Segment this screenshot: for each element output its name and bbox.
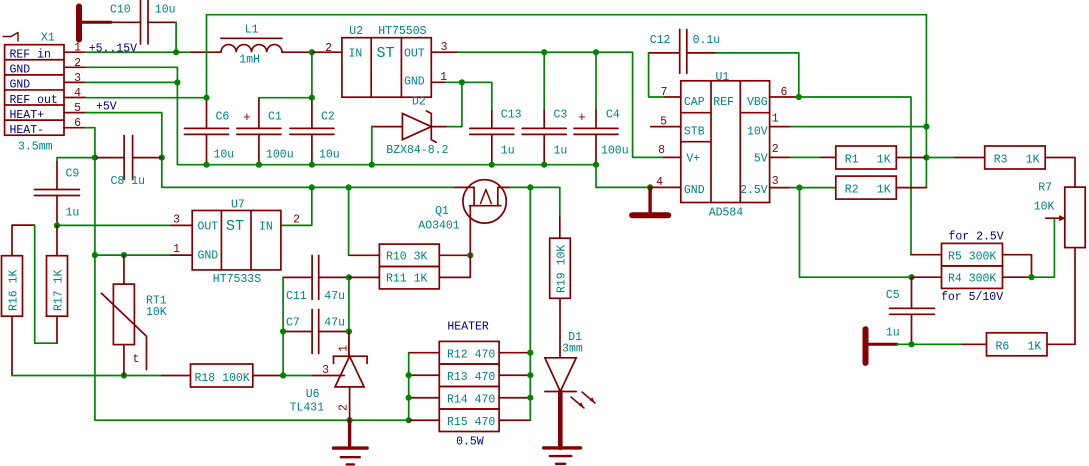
heater right vertical <box>529 187 531 420</box>
svg-text:6: 6 <box>781 86 788 99</box>
junction U2 GND <box>459 79 465 85</box>
svg-text:X1: X1 <box>41 32 55 45</box>
heater left vertical <box>408 353 410 421</box>
svg-text:OUT: OUT <box>198 221 219 234</box>
junction C1 bottom <box>256 162 262 168</box>
svg-text:7: 7 <box>661 86 668 99</box>
svg-text:3mm: 3mm <box>562 343 583 356</box>
wire HEAT- down <box>94 158 96 256</box>
wire C4 top to U1 V+ <box>596 52 664 157</box>
R4 right pin <box>1003 276 1032 278</box>
resistor R4 300K <box>942 266 1003 289</box>
svg-text:U7: U7 <box>231 199 245 212</box>
svg-text:+5V: +5V <box>96 101 117 114</box>
R4 left pin <box>912 276 942 278</box>
svg-text:HT7550S: HT7550S <box>378 25 426 38</box>
svg-text:4: 4 <box>656 176 663 189</box>
junction C2 bottom <box>309 162 315 168</box>
svg-text:R7: R7 <box>1038 182 1052 195</box>
U1 pin 4 stub <box>650 186 681 188</box>
wire X1 pin2 down <box>86 67 178 82</box>
X1 pin 4 stub <box>64 97 86 99</box>
U1 pin 8 stub <box>664 156 681 158</box>
X1 pin 3 stub <box>64 81 86 83</box>
resistor R13 470 <box>439 364 499 387</box>
wire U2 OUT to C3 C4 <box>459 51 545 53</box>
svg-text:R16 1K: R16 1K <box>8 269 21 311</box>
regulator U2 HT7550S <box>312 51 342 53</box>
wire heater rail to R10 branch <box>312 186 349 188</box>
svg-text:47u: 47u <box>324 290 345 303</box>
svg-text:C8 1u: C8 1u <box>111 175 146 188</box>
wire to C9 top <box>57 158 95 162</box>
power flag bar at C10 left <box>76 7 82 40</box>
svg-text:10u: 10u <box>155 4 176 17</box>
R10 right pin <box>439 254 470 256</box>
wire gnd to C5 <box>897 343 912 345</box>
svg-text:R18 100K: R18 100K <box>195 372 250 385</box>
svg-text:GND: GND <box>198 250 219 263</box>
junction U7 IN drop <box>309 184 315 190</box>
svg-text:+5..15V: +5..15V <box>89 43 137 56</box>
wire rail to Q1 <box>349 186 455 188</box>
svg-text:5: 5 <box>660 116 667 129</box>
wire U2 GND net <box>446 81 462 83</box>
wire U7 IN drop <box>281 187 312 225</box>
ground symbol D1 <box>558 392 563 448</box>
svg-text:AD584: AD584 <box>709 207 744 220</box>
svg-text:+: + <box>243 110 251 125</box>
svg-text:VBG: VBG <box>747 96 768 109</box>
resistor R15 470 <box>439 409 499 432</box>
svg-text:C9: C9 <box>66 168 80 181</box>
svg-text:2: 2 <box>293 214 300 227</box>
svg-text:R19 10K: R19 10K <box>556 245 569 293</box>
svg-text:IN: IN <box>349 48 363 61</box>
wire C11 C7 left column <box>282 277 284 375</box>
svg-text:6: 6 <box>74 117 81 130</box>
wire pin3 2.5V net <box>790 187 800 189</box>
svg-text:R12 470: R12 470 <box>447 348 495 361</box>
heater left pins <box>409 352 440 354</box>
svg-text:1mH: 1mH <box>239 54 260 67</box>
wire VBG to R5 <box>799 97 911 255</box>
R17 bottom pin <box>56 316 58 343</box>
U1 pin 5 stub <box>651 126 681 128</box>
wire to R2 <box>800 187 836 189</box>
junction R11 left <box>346 274 352 280</box>
wire gnd rail under caps <box>177 164 596 166</box>
svg-text:100u: 100u <box>601 145 629 158</box>
R17 top pin <box>56 225 58 255</box>
svg-text:HEAT+: HEAT+ <box>10 109 45 122</box>
svg-text:10V: 10V <box>747 125 768 138</box>
junction R4 C5 <box>908 274 914 280</box>
resistor R12 470 <box>439 341 499 364</box>
LED D1 3mm <box>559 298 561 358</box>
svg-text:1u: 1u <box>66 207 80 220</box>
connector X1 <box>5 45 64 136</box>
svg-text:1K: 1K <box>1028 340 1042 353</box>
heater right pins <box>499 352 530 354</box>
svg-text:10K: 10K <box>146 306 167 319</box>
svg-text:for 2.5V: for 2.5V <box>949 231 1004 244</box>
R11 right bend up <box>439 255 470 277</box>
junction Q1 gate <box>467 252 473 258</box>
ground symbol at U1 pin 4 <box>648 187 651 212</box>
resistor R1 1K <box>836 146 897 169</box>
X1 pin 2 stub <box>64 66 86 68</box>
svg-text:t: t <box>133 353 140 366</box>
svg-text:C1: C1 <box>268 111 282 124</box>
R1 left pin <box>821 156 836 158</box>
junction C3 bottom <box>541 162 547 168</box>
junction C13 bottom <box>489 162 495 168</box>
svg-text:1u: 1u <box>554 145 568 158</box>
U1 pin 1 stub <box>770 126 790 128</box>
wire to R19 <box>530 187 560 217</box>
wire HEAT- down to bottom rail <box>95 255 350 420</box>
zener diode D2 BZX84-8.2 <box>372 126 403 128</box>
resistor R17 1K <box>47 256 68 317</box>
junction VBG <box>796 94 802 100</box>
junction U1 GND <box>647 184 653 190</box>
svg-text:R17 1K: R17 1K <box>53 269 66 311</box>
svg-text:2: 2 <box>325 42 332 55</box>
wire down to D2 cathode <box>446 82 462 126</box>
svg-text:V+: V+ <box>686 153 700 166</box>
wire pin1 to vertical <box>790 126 926 128</box>
wire Q1 drain to heater <box>510 186 530 188</box>
junction R13 left <box>406 372 412 378</box>
svg-text:8: 8 <box>658 144 665 157</box>
junction C6 bottom <box>203 162 209 168</box>
junction C7 column bottom <box>280 372 286 378</box>
junction RT1 top <box>121 252 127 258</box>
svg-text:3: 3 <box>173 214 180 227</box>
svg-text:OUT: OUT <box>404 48 425 61</box>
svg-text:GND: GND <box>684 184 705 197</box>
resistor R2 1K <box>836 176 897 199</box>
svg-text:10u: 10u <box>319 149 340 162</box>
shunt regulator U6 TL431 <box>348 332 350 357</box>
D1 led arrows <box>571 397 584 408</box>
svg-text:U6: U6 <box>306 388 320 401</box>
junction R10 branch <box>346 184 352 190</box>
capacitor C7 <box>283 331 312 333</box>
resistor R10 3K <box>379 244 439 266</box>
junction C4 bottom <box>593 162 599 168</box>
junction C2 top <box>309 95 315 101</box>
svg-text:Q1: Q1 <box>435 205 449 218</box>
wire +5V down to heater rail <box>162 158 312 188</box>
wire R10 left up to rail <box>349 254 380 256</box>
svg-text:GND: GND <box>404 76 425 89</box>
junction C7 left <box>280 328 286 334</box>
wire top rail 10V <box>207 15 927 127</box>
svg-text:HEAT-: HEAT- <box>10 124 45 137</box>
R5 right bend down <box>1003 255 1032 278</box>
vertical 10V net <box>925 127 927 158</box>
junction RT1 bottom <box>121 372 127 378</box>
svg-text:+: + <box>578 110 586 125</box>
svg-text:3: 3 <box>441 41 448 54</box>
X1 pin 1 stub <box>64 51 86 53</box>
junction U7 GND net left <box>92 252 98 258</box>
R3 right to R7 top <box>1045 158 1075 188</box>
capacitor C12 <box>649 52 680 54</box>
svg-text:R5 300K: R5 300K <box>948 251 996 264</box>
svg-text:R11 1K: R11 1K <box>386 273 428 286</box>
svg-text:R3: R3 <box>994 154 1008 167</box>
svg-text:for 5/10V: for 5/10V <box>941 291 1003 304</box>
svg-text:C3: C3 <box>554 109 568 122</box>
svg-text:3: 3 <box>322 364 329 377</box>
svg-text:STB: STB <box>684 125 705 138</box>
svg-text:ST: ST <box>226 218 244 235</box>
capacitor C1 <box>258 98 260 129</box>
svg-text:R15 470: R15 470 <box>447 416 495 429</box>
svg-text:C2: C2 <box>321 111 335 124</box>
svg-text:5V: 5V <box>754 153 768 166</box>
wire C12 left to U1 CAP <box>649 53 665 97</box>
svg-text:3.5mm: 3.5mm <box>18 141 53 154</box>
wire R18 to U6 ref <box>253 375 283 377</box>
svg-text:REF in: REF in <box>10 49 51 62</box>
svg-text:1: 1 <box>173 243 180 256</box>
potentiometer R7 10K <box>1065 187 1085 248</box>
svg-text:3: 3 <box>74 72 81 85</box>
junction C9 R17 U7out <box>54 222 60 228</box>
junction C8 left <box>92 155 98 161</box>
junction 2.5V <box>796 185 802 191</box>
svg-text:1K: 1K <box>877 184 891 197</box>
wire C1 top to C2 top <box>259 97 312 99</box>
resistor R18 100K <box>162 375 191 377</box>
svg-text:C4: C4 <box>606 109 620 122</box>
wire X1 pin1 to L1 <box>86 51 192 53</box>
junction row3 <box>174 79 180 85</box>
capacitor C10 <box>111 21 141 23</box>
U1 pin 7 stub <box>665 96 681 98</box>
svg-text:C11: C11 <box>286 290 307 303</box>
R16 bottom pin <box>11 316 13 375</box>
svg-text:C12: C12 <box>650 34 671 47</box>
junction R14 left <box>406 395 412 401</box>
svg-text:R10 3K: R10 3K <box>386 251 428 264</box>
U1 pin 3 stub <box>770 187 790 189</box>
svg-text:GND: GND <box>10 79 31 92</box>
regulator U7 HT7533S <box>192 211 281 270</box>
svg-text:C7: C7 <box>286 317 300 330</box>
svg-text:1u: 1u <box>501 145 515 158</box>
junction U6 anode <box>347 417 353 423</box>
U2 pin 1 GND stub <box>431 81 446 83</box>
svg-text:ST: ST <box>377 45 395 62</box>
svg-text:1: 1 <box>772 113 779 126</box>
svg-text:HT7533S: HT7533S <box>213 273 261 286</box>
wire R16 bottom to R18 <box>12 375 162 377</box>
svg-text:1: 1 <box>338 345 351 352</box>
capacitor C6 <box>206 98 208 129</box>
svg-text:5: 5 <box>74 102 81 115</box>
junction row4 C6 <box>203 95 209 101</box>
svg-text:1K: 1K <box>1026 154 1040 167</box>
svg-text:47u: 47u <box>324 317 345 330</box>
svg-text:3: 3 <box>772 175 779 188</box>
svg-text:4: 4 <box>74 87 81 100</box>
capacitor C8 <box>95 157 124 159</box>
svg-text:GND: GND <box>10 64 31 77</box>
resistor R3 1K <box>956 157 985 159</box>
U1 pin 2 stub <box>770 156 790 158</box>
svg-text:1: 1 <box>74 42 81 55</box>
U6 pin 3 stub <box>313 375 340 377</box>
svg-text:C13: C13 <box>501 109 522 122</box>
svg-text:BZX84-8.2: BZX84-8.2 <box>386 144 448 157</box>
connector X1 open-wire mark <box>3 33 18 42</box>
svg-text:100u: 100u <box>266 149 294 162</box>
svg-text:R1: R1 <box>845 154 859 167</box>
svg-text:REF out: REF out <box>10 94 58 107</box>
wire C10 right to +5..15V rail <box>175 22 177 52</box>
R6 right to R7 bottom <box>1047 343 1075 345</box>
svg-text:2: 2 <box>772 143 779 156</box>
svg-text:10K: 10K <box>1034 201 1055 214</box>
svg-text:2: 2 <box>338 404 351 411</box>
wire X1 pin6 HEAT- <box>86 128 95 158</box>
svg-text:AO3401: AO3401 <box>418 219 460 232</box>
junction heater left bottom <box>406 417 412 423</box>
svg-text:R2: R2 <box>845 184 859 197</box>
junction R1 R3 row <box>923 154 929 160</box>
junction R14 right <box>527 395 533 401</box>
R16 top bend to R17 bottom <box>12 225 35 256</box>
junction R13 right <box>527 372 533 378</box>
junction C7 right <box>346 328 352 334</box>
svg-text:R6: R6 <box>996 340 1010 353</box>
capacitor C5 <box>911 277 913 308</box>
X1 pin 6 stub <box>64 127 86 129</box>
svg-text:U1: U1 <box>716 71 730 84</box>
wire D2 anode down to gnd rail <box>371 127 373 165</box>
inductor L1 <box>191 51 221 53</box>
wire to RT1 top and U7 GND <box>95 254 171 256</box>
junction at L1 right <box>309 49 315 55</box>
junction 10V net <box>923 124 929 130</box>
wire pin2 to R1 <box>790 156 821 158</box>
svg-text:2.5V: 2.5V <box>740 184 768 197</box>
ground symbol U6 <box>348 420 351 448</box>
svg-text:C5: C5 <box>886 289 900 302</box>
ground bar symbol right <box>863 329 869 363</box>
R1 right pin <box>896 157 926 159</box>
thermistor RT1 10K <box>113 284 134 345</box>
junction at 176,52 <box>173 49 179 55</box>
svg-text:R13 470: R13 470 <box>447 371 495 384</box>
svg-text:L1: L1 <box>245 24 259 37</box>
svg-text:R14 470: R14 470 <box>447 394 495 407</box>
resistor R11 1K <box>379 267 439 289</box>
reference U1 AD584 <box>681 81 770 203</box>
wire C11 C7 right column <box>348 277 350 356</box>
wire to heater left <box>350 419 409 421</box>
wire C5 to R6 <box>912 343 963 345</box>
wire C12 right to VBG <box>716 53 799 97</box>
svg-text:C6: C6 <box>216 111 230 124</box>
R11 left pin <box>349 276 380 278</box>
svg-text:TL431: TL431 <box>290 402 325 415</box>
junction R4 R5 right <box>1028 274 1034 280</box>
svg-text:IN: IN <box>259 221 273 234</box>
svg-text:U2: U2 <box>349 25 363 38</box>
wire C2 top up to L1 junction <box>311 52 313 97</box>
resistor R16 1K <box>2 256 23 317</box>
wire R3 left <box>926 157 955 159</box>
R5 left pin <box>911 254 942 256</box>
svg-text:C10: C10 <box>110 4 131 17</box>
wire right to C13 <box>462 82 492 111</box>
wire 2.5V down to R4 <box>800 188 912 278</box>
capacitor C3 <box>543 52 545 110</box>
svg-text:0.1u: 0.1u <box>693 34 721 47</box>
resistor R19 10K <box>550 238 571 298</box>
junction R12 right <box>527 350 533 356</box>
resistor R6 1K <box>962 343 987 345</box>
capacitor C9 <box>56 162 58 190</box>
wire down to R2 right <box>925 158 927 188</box>
junction D2 anode rail <box>369 162 375 168</box>
junction C4 top <box>593 49 599 55</box>
wire C9 junction to U7 OUT <box>57 224 171 226</box>
wire X1 pin5 +5V <box>86 113 162 158</box>
junction C8 right <box>159 155 165 161</box>
svg-text:REF: REF <box>713 96 734 109</box>
wire wiper net <box>1032 218 1055 277</box>
svg-text:0.5W: 0.5W <box>456 436 484 449</box>
wire X1 pin4 REF out <box>86 97 207 99</box>
svg-text:1K: 1K <box>877 154 891 167</box>
R2 right pin <box>896 187 926 189</box>
svg-text:1u: 1u <box>886 327 900 340</box>
svg-text:10u: 10u <box>214 149 235 162</box>
junction C3 top <box>541 49 547 55</box>
junction C5 bottom <box>908 341 914 347</box>
wire X1 pin3 <box>86 81 178 83</box>
U7 pin 3 stub <box>171 224 192 226</box>
transistor Q1 AO3401 <box>463 180 506 223</box>
U2 pin 3 OUT stub <box>431 51 458 53</box>
svg-text:CAP: CAP <box>684 96 705 109</box>
wire C9 bottom to junction <box>56 222 58 225</box>
U1 pin 6 stub <box>770 96 799 98</box>
capacitor C13 <box>491 111 493 128</box>
junction heater right top <box>527 184 533 190</box>
X1 pin 5 stub <box>64 112 86 114</box>
U7 pin 1 stub <box>171 254 192 256</box>
resistor R5 300K <box>942 243 1003 266</box>
resistor R14 470 <box>439 387 499 410</box>
svg-text:2: 2 <box>74 57 81 70</box>
svg-text:HEATER: HEATER <box>447 321 489 334</box>
svg-text:D2: D2 <box>412 96 426 109</box>
capacitor C2 <box>311 98 313 129</box>
wire rail to U1 GND <box>596 165 650 188</box>
capacitor C11 <box>283 276 312 278</box>
capacitor C4 <box>595 52 597 110</box>
wire row3 down to rail <box>176 82 178 164</box>
svg-text:R4 300K: R4 300K <box>948 273 996 286</box>
